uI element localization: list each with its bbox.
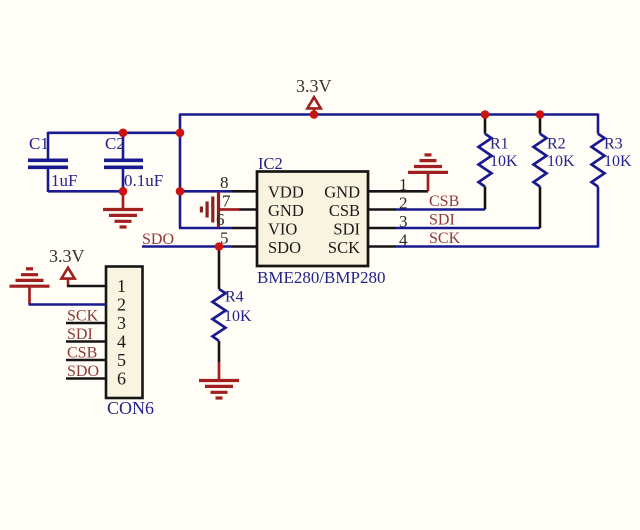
svg-text:SDI: SDI bbox=[429, 212, 455, 229]
svg-text:CSB: CSB bbox=[329, 201, 360, 220]
svg-text:SDI: SDI bbox=[333, 220, 360, 239]
junction node C2 top bbox=[119, 129, 128, 138]
svg-text:10K: 10K bbox=[604, 153, 632, 170]
svg-text:R4: R4 bbox=[225, 289, 244, 306]
svg-text:4: 4 bbox=[117, 332, 126, 352]
wire SDI net bbox=[368, 227, 540, 230]
svg-text:SCK: SCK bbox=[429, 230, 461, 247]
net label SDI at CON6 bbox=[67, 326, 93, 343]
ground at IC2 pin1 bbox=[408, 155, 448, 191]
wire SDO to IC2 pin5 bbox=[142, 245, 257, 248]
capacitor C2 bbox=[104, 132, 163, 192]
pin number 2 bbox=[399, 194, 408, 213]
pin number 4 bbox=[399, 231, 408, 250]
ground at CON6 pin2 bbox=[10, 269, 50, 305]
wire capacitor top rail bbox=[48, 132, 180, 135]
net label SCK bbox=[429, 230, 461, 247]
wire capacitor bottom rail bbox=[48, 190, 123, 193]
junction node 3.3V rail bbox=[310, 110, 319, 119]
IC2 pin names left bbox=[268, 183, 304, 258]
wire CON6 pin3 stub bbox=[66, 322, 106, 325]
resistor R1 bbox=[479, 115, 519, 210]
net label SCK at CON6 bbox=[67, 308, 99, 325]
net label SDO at CON6 bbox=[67, 363, 99, 380]
resistor R2 bbox=[534, 115, 576, 229]
svg-text:10K: 10K bbox=[547, 153, 575, 170]
net label CSB bbox=[429, 193, 459, 210]
wire CSB net bbox=[368, 208, 485, 211]
svg-text:VIO: VIO bbox=[268, 220, 297, 239]
pin number 1 bbox=[399, 175, 408, 194]
ground below R4 bbox=[199, 362, 239, 398]
svg-text:6: 6 bbox=[117, 369, 126, 389]
wire IC2 pin1 to ground bbox=[368, 190, 428, 193]
svg-text:2: 2 bbox=[117, 295, 126, 315]
op-amp U1 IC2 body bbox=[257, 154, 385, 287]
svg-text:0.1uF: 0.1uF bbox=[124, 171, 163, 190]
pin number 3 bbox=[399, 212, 408, 231]
wire CON6 pin2 to ground bbox=[29, 303, 107, 306]
resistor R3 bbox=[592, 114, 633, 248]
svg-text:SCK: SCK bbox=[328, 238, 360, 257]
net label SDI bbox=[429, 212, 455, 229]
junction node R1 top bbox=[481, 110, 490, 119]
svg-text:VDD: VDD bbox=[268, 183, 304, 202]
ground sideways at IC2 pin7 bbox=[201, 192, 257, 228]
net label CSB at CON6 bbox=[67, 345, 97, 362]
svg-text:SDO: SDO bbox=[268, 238, 301, 257]
svg-text:R1: R1 bbox=[490, 136, 509, 153]
ground below C2 bbox=[103, 191, 143, 227]
svg-text:10K: 10K bbox=[224, 308, 252, 325]
wire 3.3V top rail bbox=[180, 113, 598, 116]
svg-text:GND: GND bbox=[324, 183, 360, 202]
svg-text:10K: 10K bbox=[490, 153, 518, 170]
svg-text:C1: C1 bbox=[29, 134, 49, 153]
wire CON6 pin4 stub bbox=[66, 340, 106, 343]
IC2 pin names right bbox=[324, 183, 360, 258]
svg-text:SDO: SDO bbox=[67, 363, 99, 380]
junction node R2 top bbox=[536, 110, 545, 119]
junction node C2 bottom bbox=[119, 187, 128, 196]
svg-text:5: 5 bbox=[117, 350, 126, 370]
wire 3.3V trunk vertical bbox=[179, 114, 182, 229]
junction node trunk pin8 bbox=[176, 187, 185, 196]
wire SCK net bbox=[368, 245, 598, 248]
wire IC2 pin8 to trunk bbox=[180, 190, 257, 193]
svg-text:SDI: SDI bbox=[67, 326, 93, 343]
svg-text:CSB: CSB bbox=[67, 345, 97, 362]
svg-text:3: 3 bbox=[117, 313, 126, 333]
pin number 7 bbox=[222, 192, 231, 211]
svg-text:BME280/BMP280: BME280/BMP280 bbox=[257, 268, 385, 287]
svg-text:SDO: SDO bbox=[142, 231, 174, 248]
svg-text:8: 8 bbox=[220, 173, 229, 192]
svg-text:CON6: CON6 bbox=[107, 398, 154, 418]
power symbol 3.3V top bbox=[296, 76, 332, 115]
pin number 8 bbox=[220, 173, 229, 192]
svg-text:R3: R3 bbox=[604, 136, 623, 153]
wire CON6 pin1 to 3.3V bbox=[67, 285, 106, 288]
svg-text:CSB: CSB bbox=[429, 193, 459, 210]
svg-text:GND: GND bbox=[268, 201, 304, 220]
wire CON6 pin6 stub bbox=[66, 377, 106, 380]
junction node trunk cap rail bbox=[176, 129, 185, 138]
pin number 6 bbox=[216, 210, 225, 229]
svg-text:6: 6 bbox=[216, 210, 225, 229]
wire CON6 pin5 stub bbox=[66, 359, 106, 362]
capacitor C1 bbox=[28, 132, 77, 192]
svg-text:SCK: SCK bbox=[67, 308, 99, 325]
svg-text:3.3V: 3.3V bbox=[49, 246, 85, 266]
CON6 pin numbers 1-6 bbox=[117, 276, 126, 389]
svg-text:7: 7 bbox=[222, 192, 231, 211]
svg-text:IC2: IC2 bbox=[258, 154, 283, 173]
net label SDO bbox=[142, 231, 174, 248]
power symbol 3.3V at CON6 bbox=[49, 246, 85, 286]
resistor R4 bbox=[213, 247, 253, 363]
svg-text:1uF: 1uF bbox=[51, 171, 77, 190]
pin number 5 bbox=[220, 229, 229, 248]
svg-text:1: 1 bbox=[117, 276, 126, 296]
connector CON6 body bbox=[106, 267, 154, 419]
junction node SDO R4 bbox=[215, 242, 224, 251]
svg-text:R2: R2 bbox=[547, 136, 566, 153]
wire IC2 pin6 to trunk bbox=[179, 227, 257, 230]
svg-text:3.3V: 3.3V bbox=[296, 76, 332, 96]
